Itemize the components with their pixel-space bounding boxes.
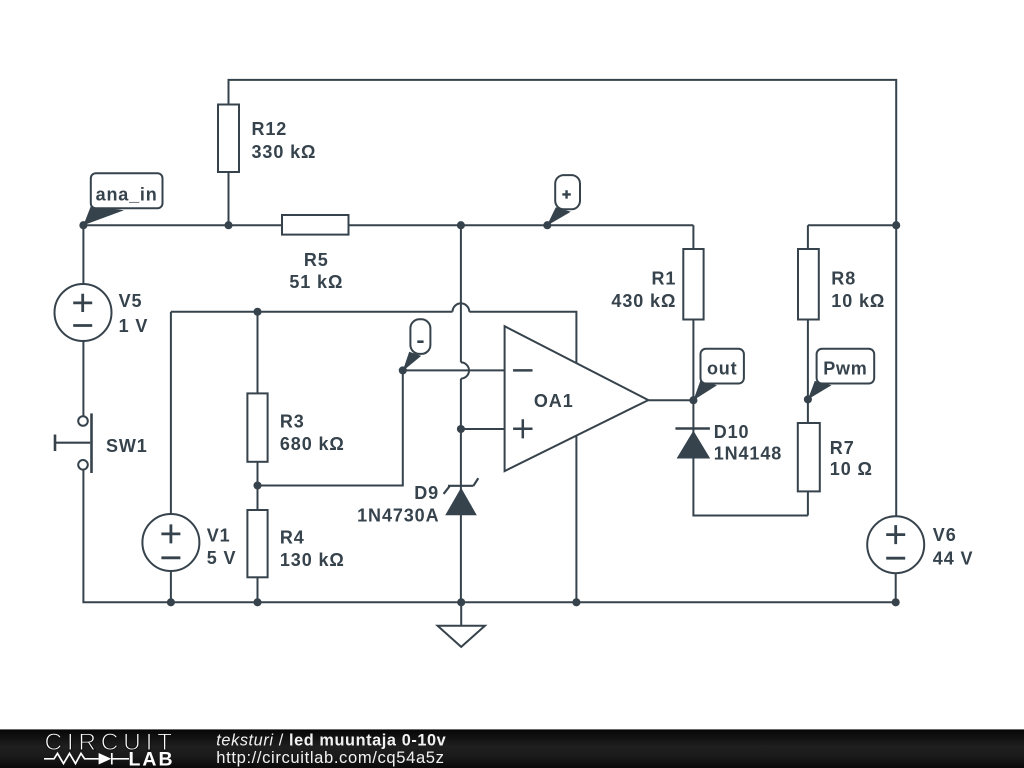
svg-text:5 V: 5 V (207, 548, 237, 568)
svg-text:teksturi / led muuntaja 0-10v: teksturi / led muuntaja 0-10v (216, 732, 446, 750)
svg-text:1 V: 1 V (119, 316, 149, 336)
svg-text:R4: R4 (280, 528, 305, 548)
svg-text:130 kΩ: 130 kΩ (280, 550, 345, 570)
svg-text:44 V: 44 V (933, 549, 974, 569)
svg-text:SW1: SW1 (106, 436, 148, 456)
svg-text:680 kΩ: 680 kΩ (280, 434, 345, 454)
svg-text:1N4148: 1N4148 (714, 443, 782, 463)
svg-text:D10: D10 (714, 422, 750, 442)
svg-text:R12: R12 (252, 119, 288, 139)
svg-text:LAB: LAB (129, 748, 175, 768)
svg-text:10 Ω: 10 Ω (830, 459, 873, 479)
svg-text:V6: V6 (933, 525, 957, 545)
svg-text:330 kΩ: 330 kΩ (252, 142, 317, 162)
svg-text:V5: V5 (119, 291, 143, 311)
svg-text:Pwm: Pwm (823, 358, 867, 378)
svg-text:R5: R5 (304, 250, 329, 270)
svg-text:R7: R7 (830, 438, 855, 458)
svg-text:OA1: OA1 (534, 391, 574, 411)
svg-text:http://circuitlab.com/cq54a5z: http://circuitlab.com/cq54a5z (216, 748, 444, 767)
svg-text:10 kΩ: 10 kΩ (831, 291, 885, 311)
svg-text:out: out (707, 358, 737, 378)
svg-text:51 kΩ: 51 kΩ (289, 272, 343, 292)
svg-text:1N4730A: 1N4730A (357, 505, 439, 525)
svg-text:R1: R1 (651, 268, 676, 288)
svg-text:V1: V1 (207, 525, 231, 545)
svg-text:ana_in: ana_in (96, 184, 158, 204)
svg-text:R3: R3 (280, 412, 305, 432)
svg-text:D9: D9 (414, 483, 439, 503)
svg-text:R8: R8 (831, 268, 856, 288)
svg-text:430 kΩ: 430 kΩ (611, 291, 676, 311)
